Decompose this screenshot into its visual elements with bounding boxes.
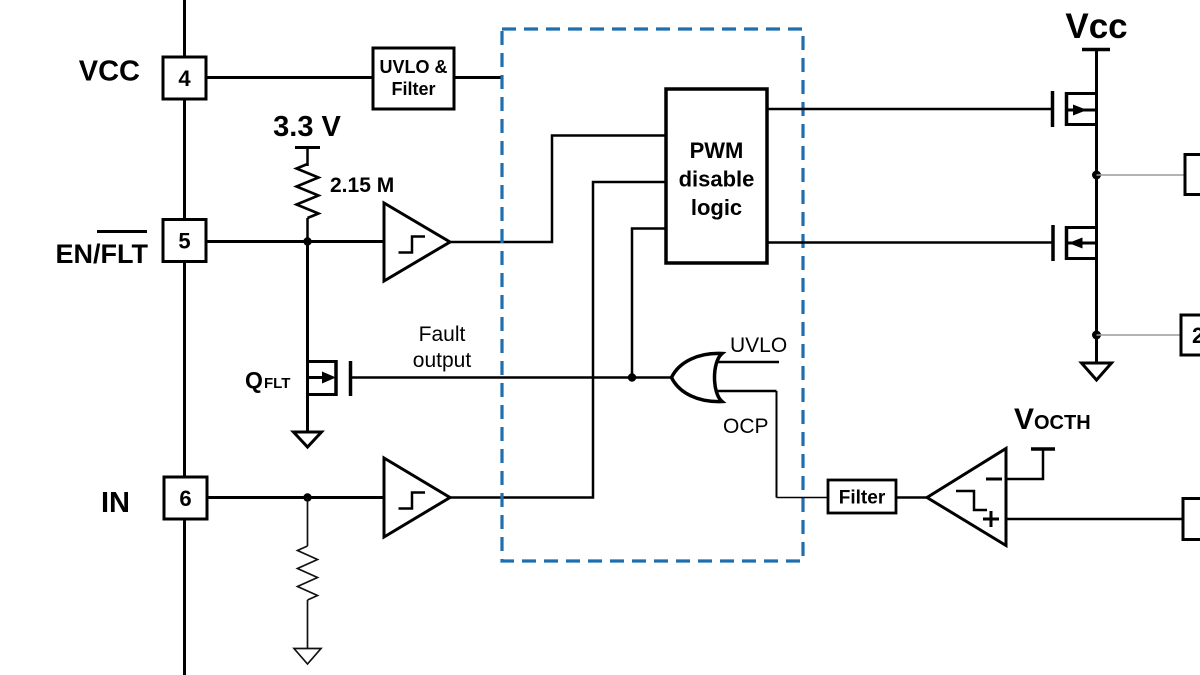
pin 5 box	[163, 220, 206, 262]
svg-text:6: 6	[179, 486, 191, 511]
svg-text:VCC: VCC	[79, 56, 140, 88]
svg-text:V: V	[1014, 403, 1034, 436]
svg-text:Fault: Fault	[419, 323, 466, 346]
resistor IN pulldown	[298, 546, 318, 600]
pin 2 box	[1181, 315, 1200, 355]
svg-text:4: 4	[178, 66, 191, 91]
label QFLT	[245, 367, 290, 393]
svg-text:OCP: OCP	[723, 415, 769, 438]
block Filter	[828, 480, 896, 513]
svg-text:PWM: PWM	[690, 138, 744, 163]
label VOCTH	[1014, 403, 1091, 436]
wire resistor to EN node	[306, 218, 309, 242]
wire comparator minus input to VOCTH	[1006, 449, 1043, 479]
wire ground node to pin 2 box	[1097, 334, 1182, 336]
junction IN node dot	[303, 493, 311, 501]
dashed boundary box	[502, 29, 803, 561]
resistor R1 2.15M	[297, 164, 319, 218]
wire: left IC boundary rail	[183, 0, 186, 675]
wire PWM to low-side gate	[767, 241, 1053, 244]
or gate U2 (UVLO/OCP, faces left)	[672, 353, 780, 401]
svg-text:2: 2	[1192, 323, 1200, 348]
ground output stage	[1082, 363, 1112, 380]
wire UVLO filter output	[454, 76, 503, 79]
junction EN node dot	[303, 237, 311, 245]
wire IN schmitt to PWM logic	[450, 182, 666, 498]
schmitt buffer IN	[384, 458, 450, 537]
svg-text:5: 5	[178, 229, 190, 254]
wire fault output QFLT gate to OR gate	[351, 376, 674, 379]
svg-text:Q: Q	[245, 367, 263, 393]
wire pin4 to UVLO filter	[206, 76, 374, 79]
supply Vcc bar	[1082, 48, 1110, 52]
svg-text:Filter: Filter	[391, 79, 435, 99]
svg-text:disable: disable	[679, 167, 755, 192]
wire OCP down	[776, 391, 778, 498]
svg-text:2.15 M: 2.15 M	[330, 174, 394, 197]
wire output node to right pin box	[1097, 174, 1186, 176]
svg-text:FLT: FLT	[264, 375, 290, 392]
wire Vcc rail	[1095, 50, 1098, 364]
junction output node dot	[1092, 171, 1101, 180]
label Fault output	[413, 323, 472, 372]
svg-text:EN/FLT: EN/FLT	[56, 239, 149, 269]
wire pin5 to EN schmitt	[206, 240, 384, 243]
svg-text:logic: logic	[691, 195, 742, 220]
pin 4 box	[163, 57, 206, 99]
wire 3.3V bar to resistor	[306, 148, 309, 167]
ground QFLT	[294, 432, 322, 447]
svg-text:UVLO: UVLO	[730, 334, 787, 357]
schmitt buffer EN	[384, 203, 450, 281]
wire pulldown resistor to ground	[307, 600, 309, 649]
supply VOCTH bar	[1031, 447, 1055, 451]
transistor QFLT	[308, 360, 351, 396]
junction fault node dot	[628, 373, 636, 381]
block UVLO & Filter	[373, 48, 454, 109]
transistor M2 low-side	[1053, 225, 1097, 261]
wire filter to comparator	[896, 496, 928, 499]
svg-text:3.3 V: 3.3 V	[273, 111, 341, 143]
ground IN pulldown	[294, 649, 321, 665]
wire PWM input 3	[632, 229, 666, 378]
svg-text:Vcc: Vcc	[1065, 7, 1127, 46]
svg-text:Filter: Filter	[839, 488, 886, 509]
block PWM disable logic	[666, 89, 767, 263]
svg-text:output: output	[413, 349, 472, 372]
svg-text:IN: IN	[101, 487, 130, 519]
transistor M1 high-side	[1053, 91, 1097, 127]
wire PWM to high-side gate	[767, 108, 1053, 111]
pin 6 box	[164, 477, 207, 519]
label EN/FLT	[56, 232, 149, 270]
svg-text:OCTH: OCTH	[1034, 412, 1091, 434]
pin box right output	[1185, 155, 1200, 195]
wire OCP to filter	[777, 497, 829, 499]
wire IN node to pulldown resistor	[307, 498, 309, 547]
junction ground node dot	[1092, 331, 1101, 340]
pin box right (comparator plus input)	[1183, 499, 1200, 540]
wire EN schmitt to PWM logic	[450, 136, 666, 243]
comparator U3 (faces left)	[927, 449, 1006, 546]
wire QFLT drain/source rail	[306, 242, 309, 433]
svg-text:UVLO &: UVLO &	[379, 57, 447, 77]
supply 3.3V bar	[295, 146, 320, 149]
wire comparator plus input	[1006, 518, 1183, 521]
wire pin6 to IN schmitt	[207, 496, 384, 499]
